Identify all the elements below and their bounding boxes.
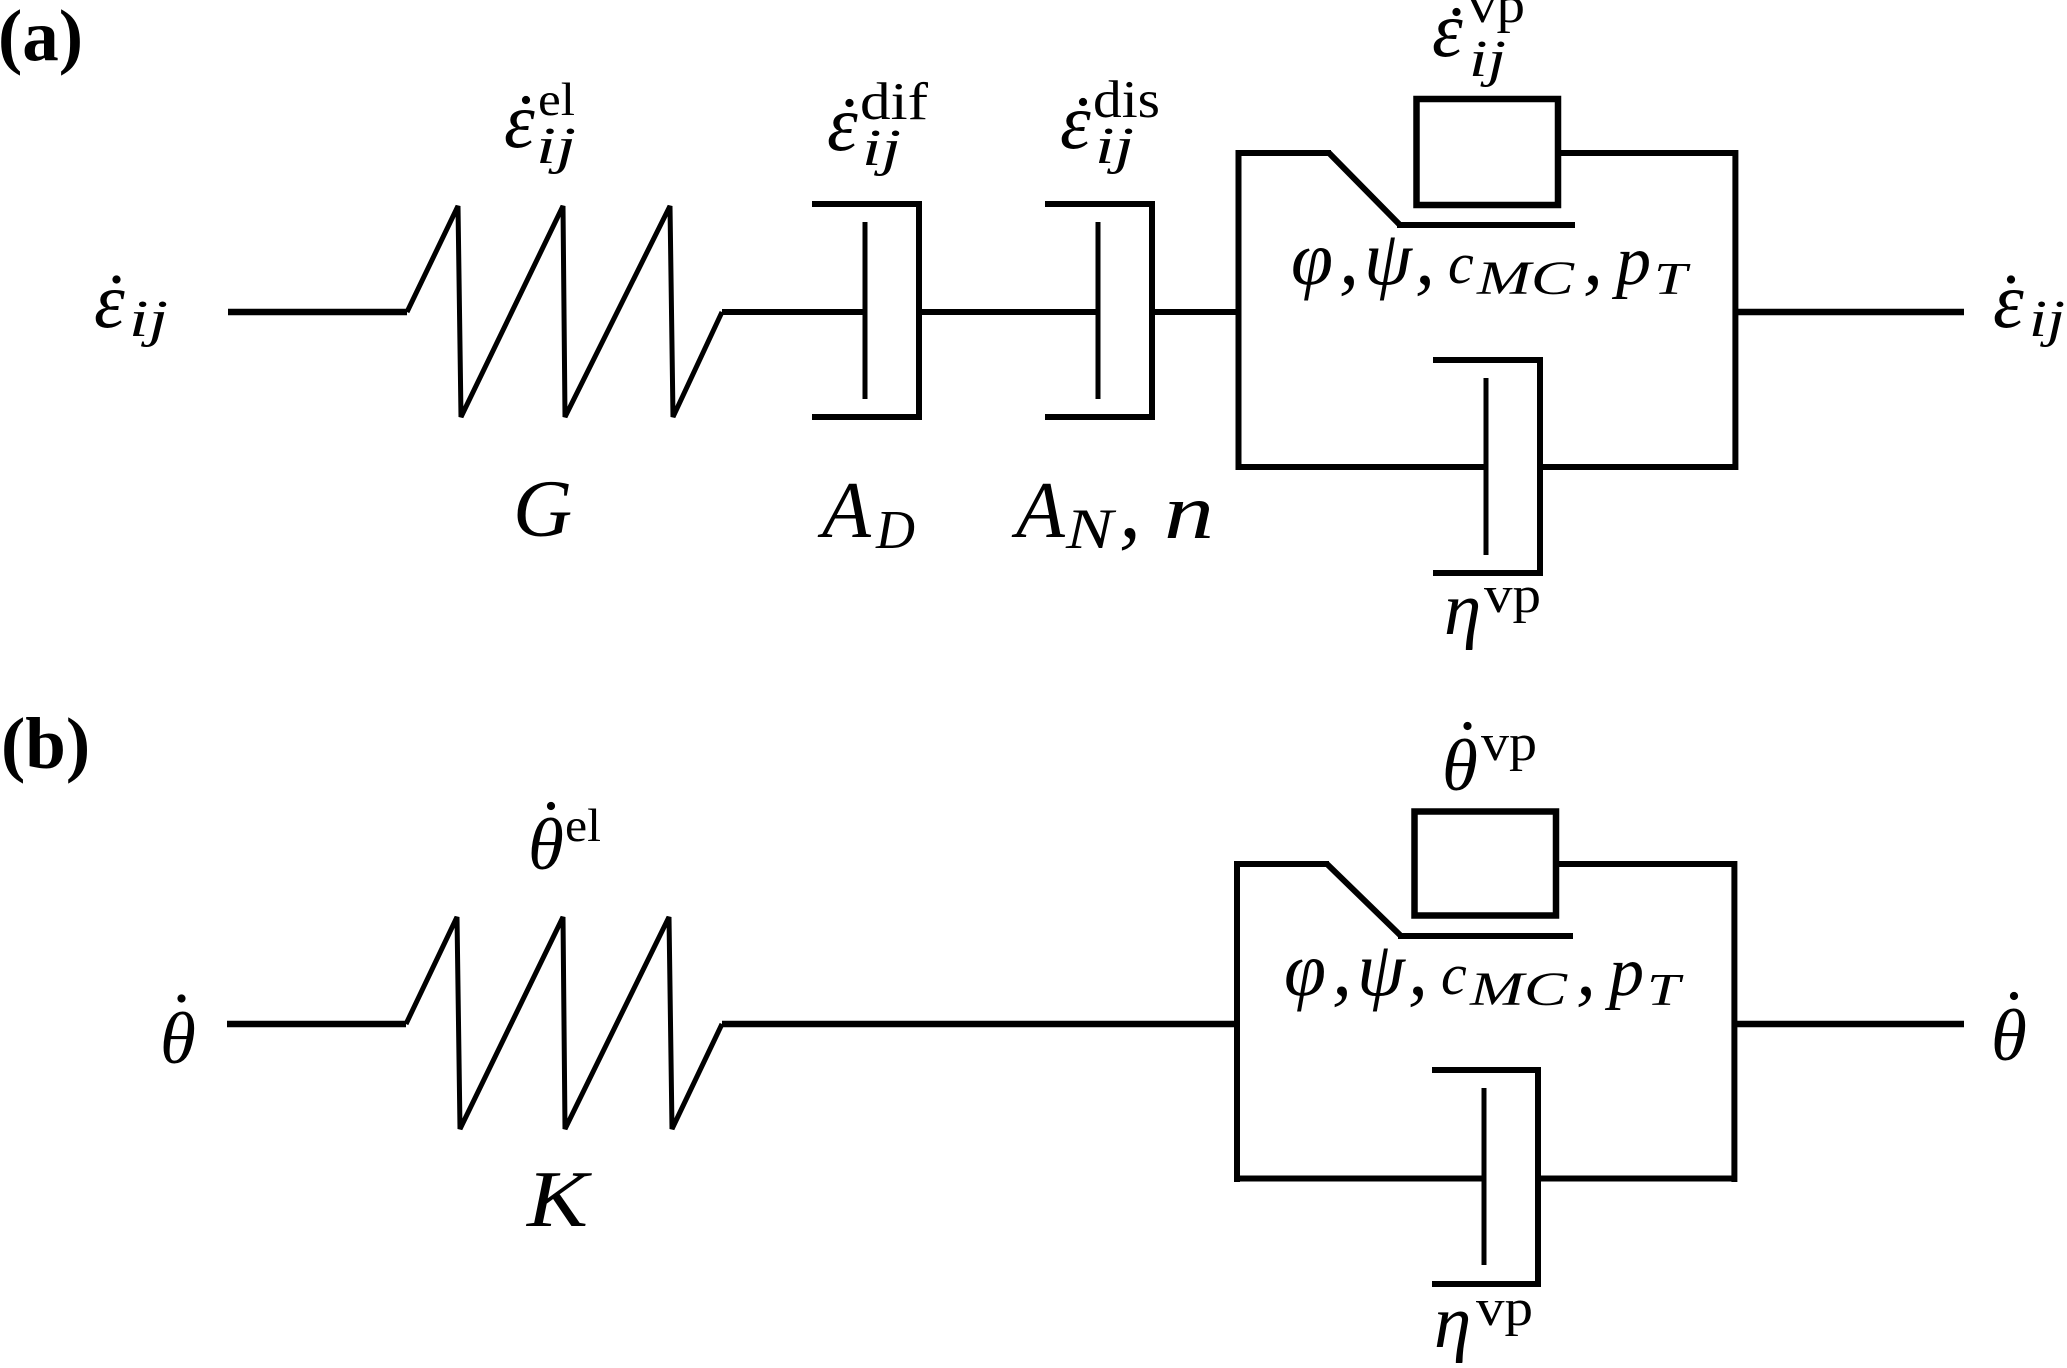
svg-text:ij: ij (2029, 291, 2065, 348)
dashpot AD cylinder (812, 204, 919, 417)
svg-text:ij: ij (129, 291, 168, 348)
dashpot AN cylinder (1045, 204, 1152, 417)
svg-text:θ: θ (1442, 725, 1478, 806)
slider box (a) (1417, 99, 1559, 205)
spring G (407, 206, 722, 417)
svg-text:ε: ε (1060, 78, 1091, 165)
wire: output lead (a) (1735, 309, 1964, 316)
svg-text:θ: θ (160, 998, 196, 1079)
viscoplastic block (b) left wall (1234, 861, 1240, 1182)
wire: dashpot AN to viscoplastic block (a) (1152, 309, 1239, 315)
svg-text:ij: ij (862, 120, 901, 177)
svg-text:MC: MC (1469, 963, 1569, 1016)
svg-text:n: n (1164, 468, 1214, 555)
dashpot eta-vp (a) piston rod (1484, 378, 1489, 555)
svg-text:ε: ε (1993, 257, 2024, 344)
slider friction surface (b) (1398, 933, 1573, 939)
svg-text:A: A (1011, 467, 1066, 555)
svg-text:η: η (1434, 1281, 1471, 1364)
wire: output lead (b) (1734, 1021, 1964, 1028)
viscoplastic block (b) right wall (1731, 861, 1737, 1182)
svg-text:ε: ε (504, 77, 535, 164)
viscoplastic block (a) left wall (1236, 150, 1242, 470)
svg-text:θ: θ (528, 804, 564, 885)
svg-text:T: T (1647, 964, 1684, 1015)
svg-text:(b): (b) (1, 703, 90, 784)
viscoplastic block (b) bottom rail right segment (1538, 1176, 1737, 1182)
slider box (b) (1415, 812, 1557, 916)
dashpot AN piston rod (1096, 222, 1101, 399)
svg-text:,: , (1583, 214, 1603, 302)
svg-text:p: p (1611, 223, 1651, 300)
svg-text:c: c (1448, 231, 1474, 296)
dashpot eta-vp (b) piston rod (1482, 1088, 1487, 1265)
svg-text:ij: ij (1469, 31, 1506, 88)
svg-text:D: D (875, 499, 915, 560)
dashpot eta-vp (b) cylinder (1432, 1070, 1538, 1284)
wire: spring to dashpot AD (722, 309, 865, 315)
slider ramp (b) (1327, 864, 1400, 935)
svg-text:,: , (1119, 460, 1141, 557)
spring K (406, 917, 722, 1129)
dashpot AD piston rod (863, 222, 868, 399)
svg-text:η: η (1444, 568, 1481, 651)
svg-text:G: G (513, 463, 572, 554)
svg-text:vp: vp (1484, 567, 1541, 624)
viscoplastic block (b) bottom rail left segment (1234, 1176, 1484, 1182)
viscoplastic block (a) bottom rail right segment (1540, 464, 1738, 470)
wire: dashpot AD to dashpot AN (919, 309, 1098, 315)
svg-text:K: K (526, 1154, 593, 1244)
svg-text:T: T (1654, 253, 1691, 304)
svg-text:vp: vp (1476, 1280, 1533, 1337)
svg-text:p: p (1604, 934, 1644, 1011)
dashpot eta-vp (a) cylinder (1433, 360, 1540, 573)
svg-text:ε: ε (827, 80, 858, 167)
svg-text:ψ: ψ (1364, 215, 1413, 301)
viscoplastic block (a) top-right rail (1558, 150, 1735, 156)
svg-text:el: el (565, 800, 601, 852)
svg-text:θ: θ (1991, 995, 2027, 1076)
wire: input lead (a) (228, 309, 407, 316)
svg-text:A: A (817, 467, 872, 555)
svg-text:(a): (a) (0, 0, 83, 76)
svg-text:,: , (1339, 214, 1359, 302)
svg-text:MC: MC (1476, 252, 1576, 305)
viscoplastic block (a) right wall (1732, 150, 1738, 470)
viscoplastic block (a) bottom rail left segment (1236, 464, 1486, 470)
viscoplastic block (b) top-left rail (1234, 861, 1329, 867)
viscoplastic block (b) top-right rail (1556, 861, 1734, 867)
slider friction surface (a) (1397, 222, 1575, 228)
svg-text:ij: ij (536, 118, 576, 175)
svg-text:,: , (1415, 214, 1435, 302)
svg-text:φ: φ (1284, 928, 1326, 1012)
svg-text:vp: vp (1481, 715, 1537, 772)
svg-text:ψ: ψ (1357, 926, 1406, 1012)
svg-text:,: , (1332, 925, 1352, 1013)
svg-text:N: N (1065, 498, 1117, 561)
wire: input lead (b) (227, 1021, 406, 1028)
svg-text:c: c (1441, 942, 1467, 1007)
slider ramp (a) (1329, 153, 1399, 224)
svg-text:ε: ε (94, 257, 125, 344)
wire: spring K to viscoplastic block (b) (722, 1021, 1237, 1028)
svg-text:ij: ij (1095, 118, 1134, 175)
svg-text:,: , (1576, 925, 1596, 1013)
viscoplastic block (a) top-left rail (1236, 150, 1331, 156)
svg-text:vp: vp (1468, 0, 1525, 34)
svg-text:φ: φ (1291, 217, 1333, 301)
svg-text:,: , (1408, 925, 1428, 1013)
